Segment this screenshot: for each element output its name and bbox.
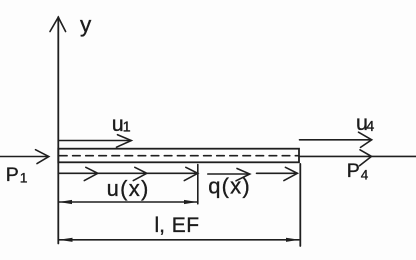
- u1 displacement arrow shaft: [58, 140, 131, 142]
- x-axis arrowhead: [360, 150, 372, 166]
- l,EF right extension line: [299, 164, 301, 246]
- l,EF dimension line: [59, 239, 299, 241]
- force P1 arrow shaft: [0, 156, 49, 158]
- y-axis arrowhead: [50, 17, 66, 31]
- svg-text:4: 4: [366, 119, 374, 135]
- row arrowhead 1: [84, 167, 98, 180]
- u4 arrowhead: [359, 132, 372, 147]
- l,EF dimension right arrowhead: [286, 238, 299, 242]
- svg-text:q(x): q(x): [208, 174, 251, 199]
- u1 arrowhead: [117, 135, 132, 148]
- y-axis line: [57, 17, 59, 244]
- svg-text:u(x): u(x): [107, 176, 150, 201]
- svg-text:l,: l,: [155, 214, 166, 237]
- row arrowhead 2: [133, 167, 147, 180]
- l,EF dimension left arrowhead: [59, 238, 73, 242]
- svg-text:1: 1: [123, 120, 131, 136]
- u4 displacement arrow shaft: [300, 139, 372, 141]
- u(x) dimension left arrowhead: [59, 200, 72, 204]
- distributed load arrow row shaft: [58, 172, 197, 174]
- row arrowhead 3: [184, 167, 198, 180]
- svg-text:P: P: [347, 160, 360, 182]
- last distributed arrow shaft: [257, 172, 298, 174]
- q(x) arrowhead: [236, 169, 250, 181]
- svg-text:P: P: [6, 164, 19, 186]
- u(x) right extension line: [197, 165, 199, 204]
- q(x) labelled arrow shaft: [208, 173, 249, 175]
- u(x) dimension line: [59, 201, 197, 203]
- bar element outline: [58, 149, 299, 163]
- u(x) dimension right arrowhead: [184, 200, 197, 204]
- bar dashed centerline: [60, 155, 299, 157]
- svg-text:1: 1: [20, 169, 28, 185]
- svg-text:4: 4: [361, 167, 369, 182]
- x-axis line: [299, 155, 416, 157]
- last distributed arrowhead: [284, 167, 298, 180]
- force P1 arrowhead: [36, 150, 49, 164]
- svg-text:y: y: [80, 12, 92, 37]
- svg-text:EF: EF: [172, 214, 200, 237]
